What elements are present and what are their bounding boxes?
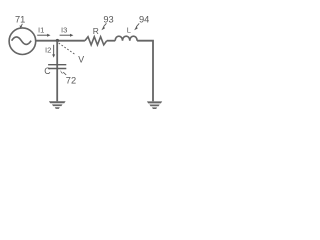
svg-text:C: C <box>44 66 51 76</box>
svg-text:I2: I2 <box>45 46 51 55</box>
svg-text:71: 71 <box>15 15 25 25</box>
svg-text:93: 93 <box>103 14 113 24</box>
svg-text:L: L <box>127 26 131 35</box>
svg-text:94: 94 <box>139 14 149 24</box>
svg-text:I3: I3 <box>61 26 67 35</box>
svg-text:V: V <box>78 55 84 65</box>
svg-text:72: 72 <box>66 76 76 86</box>
svg-text:I1: I1 <box>38 26 44 35</box>
svg-text:R: R <box>93 26 99 36</box>
